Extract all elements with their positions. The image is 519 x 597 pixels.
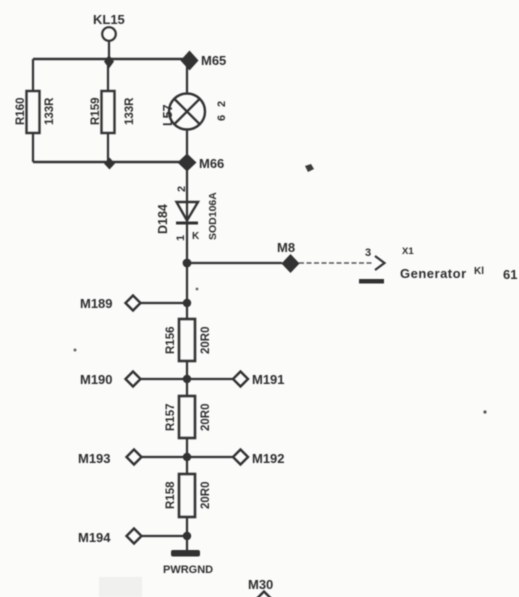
- wire node A to M8: [187, 262, 282, 264]
- ink speck: [483, 410, 486, 413]
- wire R160 to bottom bus: [32, 133, 34, 162]
- svg-text:133R: 133R: [124, 97, 136, 125]
- svg-text:Kl: Kl: [474, 266, 484, 277]
- junction R159/bottom bus: [104, 158, 115, 170]
- svg-text:Generator: Generator: [400, 266, 467, 281]
- lamp value marks: [216, 101, 228, 121]
- svg-text:SOD106A: SOD106A: [207, 192, 219, 240]
- ink speck: [305, 164, 314, 172]
- junction M189 row: [183, 299, 191, 307]
- svg-text:M8: M8: [277, 240, 295, 255]
- resistor R157: [179, 396, 195, 438]
- node M191: [233, 372, 285, 388]
- wire R158 to M194 row: [186, 517, 188, 551]
- wire R159 to bottom bus: [107, 133, 109, 162]
- wire M65 down to lamp: [186, 66, 188, 94]
- ink speck: [196, 288, 199, 291]
- svg-text:20R0: 20R0: [200, 482, 212, 510]
- net stub bar: [359, 279, 384, 284]
- node M190: [80, 372, 141, 388]
- ink speck: [74, 349, 77, 352]
- wire lamp to M66: [186, 130, 188, 161]
- svg-text:L57: L57: [161, 104, 175, 126]
- wire R156 to M190 row: [186, 361, 188, 396]
- node M8: [277, 240, 300, 273]
- svg-text:M192: M192: [252, 451, 285, 466]
- svg-text:M193: M193: [78, 451, 111, 466]
- svg-text:R159: R159: [90, 98, 102, 126]
- svg-text:M30: M30: [248, 577, 273, 592]
- junction M190 row: [183, 375, 191, 383]
- wire bottom bus: [33, 161, 187, 163]
- svg-text:61: 61: [503, 267, 517, 282]
- svg-text:M190: M190: [80, 372, 113, 387]
- wire M193 row: [142, 456, 233, 458]
- node M194: [78, 529, 142, 546]
- svg-text:1: 1: [175, 235, 187, 241]
- svg-text:R158: R158: [165, 481, 177, 509]
- wire diode to node A: [186, 224, 188, 303]
- ground PWRGND: [163, 550, 213, 576]
- svg-text:3: 3: [365, 247, 371, 259]
- wire M8 to connector: [299, 262, 374, 264]
- svg-text:M189: M189: [80, 296, 113, 311]
- node M192: [233, 450, 285, 467]
- svg-text:R156: R156: [165, 327, 177, 355]
- wire M194 row: [142, 535, 187, 537]
- svg-text:X1: X1: [402, 246, 414, 257]
- resistor R159: [102, 91, 115, 133]
- resistor R156: [179, 319, 195, 361]
- svg-text:133R: 133R: [44, 97, 56, 125]
- wire top bus: [33, 58, 187, 60]
- svg-text:2: 2: [216, 101, 228, 107]
- svg-text:M191: M191: [252, 372, 285, 387]
- node M30: [248, 577, 273, 597]
- svg-text:R157: R157: [165, 404, 177, 432]
- terminal KL15 circle: [102, 27, 116, 41]
- wire left branch down to R160: [32, 59, 34, 91]
- wire middle branch down to R159: [107, 66, 109, 91]
- svg-text:K: K: [192, 231, 200, 242]
- resistor R160: [27, 91, 40, 133]
- wire R157 to M193 row: [186, 438, 188, 474]
- svg-text:M65: M65: [201, 53, 226, 68]
- node M65: [181, 51, 227, 71]
- svg-text:KL15: KL15: [93, 12, 125, 27]
- svg-text:20R0: 20R0: [200, 327, 212, 355]
- svg-text:6: 6: [216, 115, 228, 121]
- net label Generator Kl 61: [400, 266, 517, 282]
- resistor R158: [179, 474, 195, 517]
- junction at KL15/top bus: [104, 55, 114, 69]
- node M193: [78, 450, 142, 467]
- svg-text:20R0: 20R0: [200, 404, 212, 432]
- junction M194 row: [183, 532, 191, 540]
- wire KL15 to top bus: [108, 41, 110, 60]
- svg-text:PWRGND: PWRGND: [163, 564, 213, 576]
- junction node A: [183, 259, 192, 268]
- svg-text:M66: M66: [199, 156, 224, 171]
- wire to R156: [186, 303, 188, 319]
- node M189: [80, 296, 141, 312]
- svg-text:R160: R160: [15, 98, 27, 126]
- lamp L57: [169, 94, 205, 130]
- wire M66 to diode: [186, 170, 188, 224]
- wire M190 row: [141, 378, 233, 380]
- svg-text:2: 2: [176, 186, 188, 192]
- svg-text:D184: D184: [156, 204, 170, 234]
- scan artifact rectangle: [99, 577, 142, 597]
- node M66: [178, 154, 225, 172]
- svg-text:M194: M194: [78, 530, 111, 545]
- wire M189 to ladder: [141, 302, 187, 304]
- connector arrow: [375, 256, 385, 270]
- junction M193 row: [183, 453, 191, 461]
- diode D184: [176, 202, 198, 223]
